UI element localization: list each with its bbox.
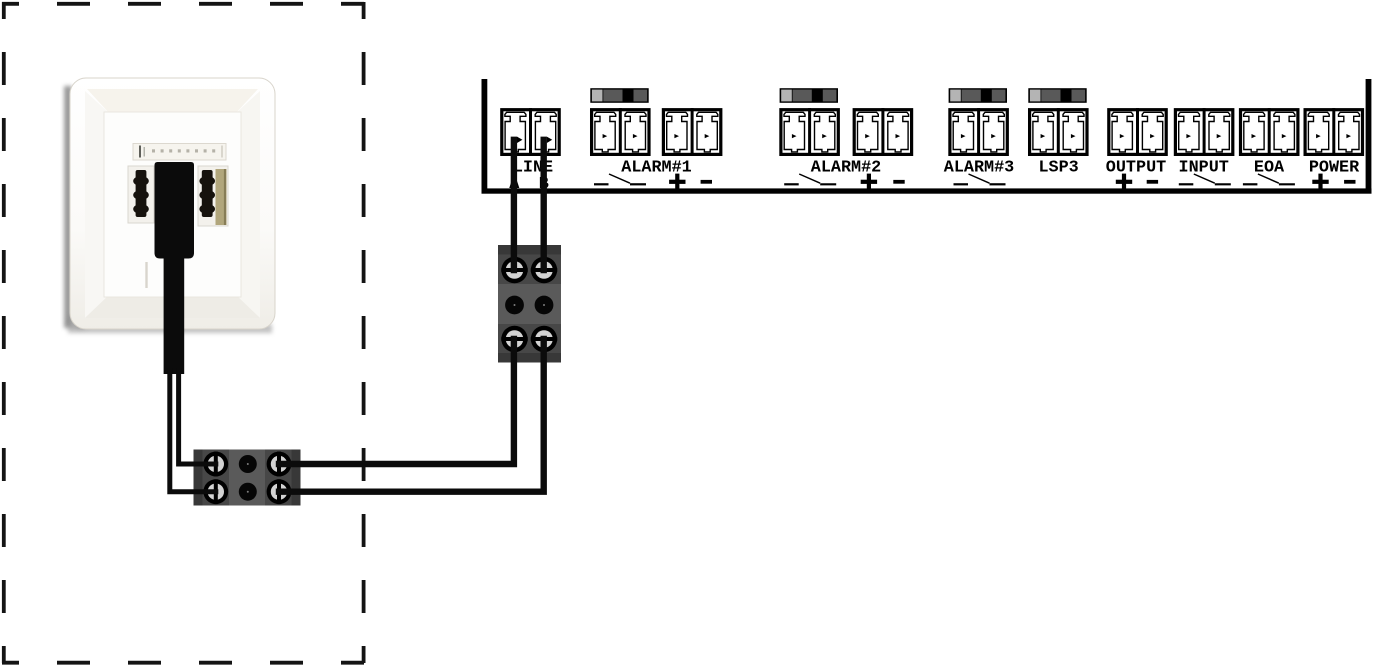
terminal pair LSP3 [1030, 108, 1087, 156]
terminal pair ALARM#2 +/- [854, 108, 911, 156]
wire cable-right to TB1 top-left [179, 370, 216, 464]
TB2 screw bottom-left [501, 326, 527, 352]
svg-text:ALARM#3: ALARM#3 [944, 158, 1015, 177]
svg-text:OUTPUT: OUTPUT [1106, 158, 1166, 177]
plus label POWER [1312, 174, 1328, 190]
terminal block TB2 body [498, 245, 561, 363]
wire tip arrow A [517, 137, 522, 143]
wire TB1 bottom-right to TB2 bottom-right [279, 339, 544, 492]
TB2 screw top-left [501, 257, 527, 283]
socket contacts left [133, 170, 149, 217]
socket jack recess right [198, 166, 228, 226]
terminal pair ALARM#1 switch [592, 108, 649, 156]
wall socket (TAE) [64, 78, 275, 333]
svg-text:ALARM#1: ALARM#1 [621, 158, 692, 177]
switch contact symbol ALARM#2 [784, 174, 836, 184]
terminal pair LINE A/B [502, 108, 559, 156]
DIP switch above ALARM#1 [590, 88, 648, 103]
socket shadow [64, 86, 72, 328]
molding mark [145, 262, 147, 288]
TB2 screw bottom-right [531, 326, 557, 352]
terminal pair OUTPUT [1109, 108, 1166, 156]
terminal pair ALARM#3 [950, 108, 1007, 156]
TB2 screw top-right [531, 257, 557, 283]
socket contacts right [199, 170, 215, 217]
socket bevel left [85, 91, 109, 318]
dashed enclosure boundary [2, 2, 364, 663]
terminal pair EOA [1241, 108, 1298, 156]
gold contact strip [216, 169, 227, 225]
socket bevel right [236, 91, 260, 318]
panel outline left wall [482, 79, 488, 192]
wire LINE A to TB2 top-left [511, 140, 517, 270]
svg-text:POWER: POWER [1309, 158, 1360, 177]
panel outline right wall [1366, 79, 1372, 192]
plus label ALARM#1 [669, 174, 685, 190]
minus label OUTPUT [1147, 180, 1158, 184]
minus label POWER [1344, 180, 1355, 184]
TB2 hole left [505, 296, 524, 315]
switch contact symbol ALARM#1 [594, 174, 646, 184]
terminal block TB1 body [194, 450, 301, 506]
DIP switch above ALARM#3 [949, 88, 1007, 103]
terminal pair ALARM#1 +/- [663, 108, 720, 156]
telephone plug [155, 162, 195, 259]
terminal pair ALARM#2 switch [781, 108, 838, 156]
socket inner panel [104, 112, 241, 297]
panel outline bottom wall [482, 188, 1372, 193]
socket jack recess left [128, 166, 154, 223]
TB1 hole top [239, 455, 257, 473]
plus label ALARM#2 [861, 174, 877, 190]
switch contact symbol EOA [1243, 174, 1295, 184]
TB2 hole right [535, 296, 554, 315]
wire tip arrow B [547, 137, 552, 143]
plus label OUTPUT [1116, 174, 1132, 190]
socket bevel top [87, 89, 258, 113]
TB1 hole bottom [239, 483, 257, 501]
svg-text:LSP3: LSP3 [1038, 158, 1078, 177]
wire cable-left to TB1 bottom-left [170, 370, 216, 492]
svg-text:INPUT: INPUT [1179, 158, 1229, 177]
DIP switch above LSP3 [1028, 88, 1086, 103]
terminal pair INPUT [1175, 108, 1232, 156]
cable [164, 255, 185, 374]
terminal pair POWER [1305, 108, 1362, 156]
DIP switch above ALARM#2 [780, 88, 838, 103]
switch contact symbol INPUT [1179, 174, 1231, 184]
minus label ALARM#2 [893, 180, 904, 184]
TB1 screw bottom-left [203, 479, 228, 504]
wire LINE B to TB2 top-right [541, 140, 547, 270]
socket label strip [133, 144, 226, 161]
wire TB1 top-right to TB2 bottom-left [279, 339, 514, 464]
TB1 screw bottom-right [267, 479, 292, 504]
TB1 screw top-left [203, 452, 228, 477]
socket bevel bottom [85, 295, 260, 318]
minus label ALARM#1 [701, 180, 712, 184]
switch contact symbol ALARM#3 [954, 174, 1006, 184]
socket face plate [70, 78, 275, 329]
TB1 screw top-right [267, 452, 292, 477]
